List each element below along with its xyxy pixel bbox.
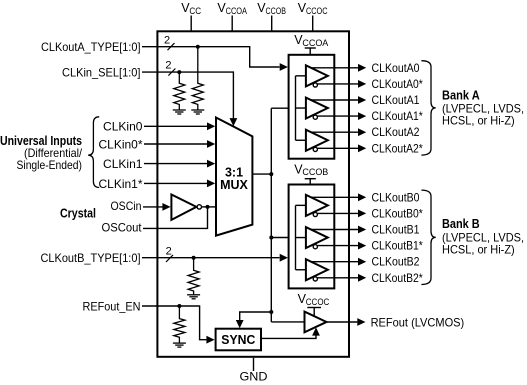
pin CLKoutB_TYPE[1:0] bbox=[41, 246, 288, 265]
wire input stub buffer B2 bbox=[296, 269, 307, 271]
svg-text:CCOB: CCOB bbox=[302, 167, 328, 177]
pulldown resistor on CLKoutA_TYPE bbox=[191, 47, 204, 114]
bank A output block bbox=[289, 55, 335, 159]
right brace bank B outputs bbox=[421, 190, 435, 284]
svg-text:CLKoutA2*: CLKoutA2* bbox=[372, 141, 424, 155]
sync block SYNC bbox=[216, 329, 261, 351]
bank B output block bbox=[289, 185, 335, 289]
svg-text:CLKoutB1: CLKoutB1 bbox=[372, 223, 420, 237]
svg-text:CCOA: CCOA bbox=[226, 6, 247, 16]
svg-text:CLKoutB0: CLKoutB0 bbox=[372, 190, 420, 204]
ground pin GND bbox=[240, 358, 268, 384]
wire SYNC output to REFout buffer enable bbox=[261, 327, 320, 338]
wire bank A feed bbox=[271, 106, 297, 110]
svg-text:2: 2 bbox=[164, 35, 170, 47]
pulldown resistor on CLKin_SEL bbox=[173, 72, 186, 114]
pin CLKin1* bbox=[99, 177, 216, 191]
power pin V_CCOC bbox=[298, 1, 328, 31]
svg-text:MUX: MUX bbox=[220, 178, 248, 192]
wire clock bus to REFout buffer input bbox=[271, 321, 304, 323]
right brace bank A outputs bbox=[421, 61, 435, 155]
wire bank B internal input bus bbox=[295, 205, 297, 269]
pulldown resistor on CLKoutB_TYPE bbox=[187, 258, 200, 299]
wire output CLKoutA2* bbox=[317, 144, 366, 152]
power symbol V_CCOC over REFout buffer bbox=[298, 292, 330, 316]
pin REFout_EN bbox=[83, 299, 215, 343]
wire output CLKoutB0 bbox=[311, 193, 366, 201]
svg-text:SYNC: SYNC bbox=[221, 333, 255, 347]
svg-text:HCSL, or Hi-Z): HCSL, or Hi-Z) bbox=[442, 114, 515, 128]
main device outline bbox=[157, 31, 349, 357]
wire input stub buffer A2 bbox=[296, 139, 307, 141]
pin OSCout bbox=[102, 207, 208, 235]
inversion bubble buffer UB2 bbox=[313, 277, 317, 281]
wire input stub buffer B1 bbox=[296, 237, 307, 239]
node OSC junction bbox=[206, 205, 210, 209]
power pin V_CCOB bbox=[257, 1, 286, 31]
svg-text:CLKoutA_TYPE[1:0]: CLKoutA_TYPE[1:0] bbox=[41, 40, 141, 54]
power pin V_CCOA bbox=[217, 1, 247, 31]
wire output CLKoutB2 bbox=[311, 258, 366, 266]
label Universal Inputs bbox=[0, 134, 83, 172]
svg-text:REFout (LVCMOS): REFout (LVCMOS) bbox=[371, 315, 465, 329]
svg-text:CLKin1: CLKin1 bbox=[103, 157, 143, 171]
svg-text:CLKoutA1*: CLKoutA1* bbox=[372, 109, 424, 123]
inversion bubble buffer UA2 bbox=[313, 147, 317, 151]
buffer UA0 bbox=[306, 65, 328, 86]
svg-text:REFout_EN: REFout_EN bbox=[83, 299, 141, 313]
svg-text:2: 2 bbox=[165, 59, 171, 71]
buffer UB0 bbox=[306, 195, 328, 216]
wire bank A internal input bus bbox=[295, 76, 297, 140]
buffer U4 REFout tri-state bbox=[305, 312, 327, 333]
wire mux output to clock distribution bus bbox=[252, 108, 273, 322]
svg-text:CLKoutB0*: CLKoutB0* bbox=[372, 206, 424, 220]
label Bank B bbox=[442, 217, 524, 256]
pin CLKin0 bbox=[103, 120, 215, 134]
wire output CLKoutB1* bbox=[317, 242, 366, 250]
wire output CLKoutA0* bbox=[317, 80, 366, 88]
inversion bubble buffer UB1 bbox=[313, 245, 317, 249]
mux U3 3:1 MUX bbox=[216, 118, 252, 236]
buffer UA2 bbox=[306, 130, 328, 151]
svg-text:OSCin: OSCin bbox=[111, 199, 142, 213]
wire bank B feed bbox=[269, 236, 297, 240]
pin OSCin bbox=[111, 199, 171, 213]
pin CLKin1 bbox=[103, 157, 215, 171]
power pin V_CC bbox=[181, 1, 201, 31]
inversion bubble buffer UB0 bbox=[313, 212, 317, 216]
wire clock bus to SYNC input bbox=[236, 310, 273, 328]
svg-text:CC: CC bbox=[189, 6, 201, 16]
power symbol V_CCOA over bank A bbox=[294, 33, 328, 55]
svg-text:GND: GND bbox=[240, 370, 268, 384]
buffer UA1 bbox=[306, 98, 328, 119]
svg-text:Bank B: Bank B bbox=[442, 217, 480, 231]
svg-text:CCOC: CCOC bbox=[306, 297, 330, 307]
left brace for universal inputs bbox=[88, 117, 99, 188]
wire output CLKoutA1* bbox=[317, 112, 366, 120]
wire input stub buffer A1 bbox=[296, 107, 307, 109]
inversion bubble buffer UA1 bbox=[313, 115, 317, 119]
wire output CLKoutA1 bbox=[311, 96, 366, 104]
wire output CLKoutB2* bbox=[317, 274, 366, 282]
svg-text:CCOB: CCOB bbox=[266, 6, 287, 16]
svg-text:CLKoutA2: CLKoutA2 bbox=[372, 125, 420, 139]
wire output CLKoutA2 bbox=[311, 128, 366, 136]
buffer UB2 bbox=[306, 259, 328, 280]
svg-text:CLKoutA0: CLKoutA0 bbox=[372, 61, 420, 75]
pulldown resistor on REFout_EN bbox=[173, 306, 186, 347]
svg-text:CLKoutB1*: CLKoutB1* bbox=[372, 239, 424, 253]
svg-text:HCSL, or Hi-Z): HCSL, or Hi-Z) bbox=[442, 242, 515, 256]
svg-text:2: 2 bbox=[166, 246, 172, 258]
wire output CLKoutA0 bbox=[311, 64, 366, 72]
svg-text:CLKin0*: CLKin0* bbox=[99, 137, 143, 151]
svg-text:OSCout: OSCout bbox=[102, 220, 143, 234]
svg-text:CLKoutA1: CLKoutA1 bbox=[372, 93, 420, 107]
pin CLKin_SEL[1:0] bbox=[62, 59, 237, 126]
svg-text:CCOA: CCOA bbox=[302, 38, 328, 48]
svg-text:CLKoutB2*: CLKoutB2* bbox=[372, 271, 424, 285]
label Bank A bbox=[442, 88, 524, 127]
wire input stub buffer B0 bbox=[296, 204, 307, 206]
svg-text:CLKoutB_TYPE[1:0]: CLKoutB_TYPE[1:0] bbox=[41, 251, 141, 265]
wire output CLKoutB1 bbox=[311, 226, 366, 234]
svg-text:Crystal: Crystal bbox=[60, 206, 96, 220]
svg-text:CLKoutA0*: CLKoutA0* bbox=[372, 77, 424, 91]
inverter U2 crystal oscillator bbox=[171, 195, 216, 220]
svg-text:CLKin1*: CLKin1* bbox=[99, 177, 143, 191]
buffer UB1 bbox=[306, 227, 328, 248]
svg-text:Bank A: Bank A bbox=[442, 88, 480, 102]
svg-text:CLKin0: CLKin0 bbox=[103, 120, 143, 134]
wire REFout output bbox=[327, 318, 366, 326]
wire input stub buffer A0 bbox=[296, 75, 307, 77]
power symbol V_CCOB over bank B bbox=[294, 162, 328, 184]
svg-text:CLKin_SEL[1:0]: CLKin_SEL[1:0] bbox=[62, 65, 141, 79]
pin CLKoutA_TYPE[1:0] bbox=[41, 35, 288, 71]
wire output CLKoutB0* bbox=[317, 210, 366, 218]
inversion bubble buffer UA0 bbox=[313, 83, 317, 87]
svg-text:CCOC: CCOC bbox=[306, 6, 328, 16]
svg-text:CLKoutB2: CLKoutB2 bbox=[372, 255, 420, 269]
pin CLKin0* bbox=[99, 137, 216, 151]
svg-text:Single-Ended): Single-Ended) bbox=[17, 158, 83, 172]
